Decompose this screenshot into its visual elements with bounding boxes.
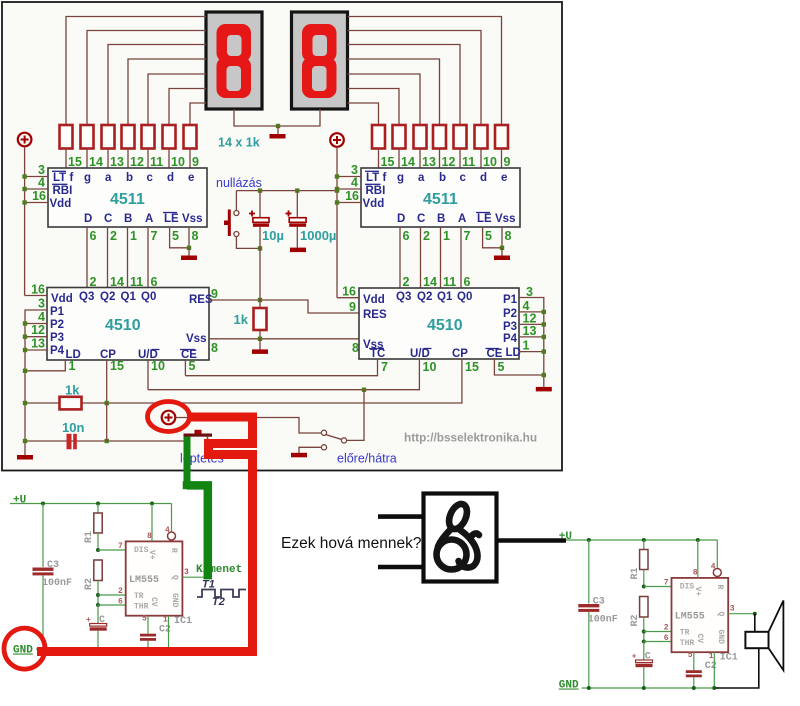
capacitor C IC1-left [97,605,99,624]
svg-text:a: a [105,172,112,184]
annotation red ring at GND [4,628,45,669]
svg-text:TR: TR [680,629,690,638]
wire U3 preset pin 12 [25,336,47,338]
wire U2 data pin 7 [460,227,462,288]
wire TR pin 2 IC1-left [98,594,126,596]
junction speaker node [753,612,757,616]
power terminal +V right [330,133,344,147]
svg-text:13: 13 [31,337,45,351]
svg-text:CV: CV [149,597,158,607]
svg-text:C: C [645,652,651,663]
wire resistor to 4511-1 pin 14 [86,149,88,169]
wire segment right display to resistor x439.5 [348,59,440,125]
svg-text:2: 2 [403,275,410,289]
svg-text:g: g [84,172,91,184]
wire switch common to U/D row [347,390,364,441]
wire U3 CP pin 15 [106,360,108,403]
junction U3 CP node [105,401,109,405]
svg-text:GND: GND [716,630,725,645]
annotation red ring at +V leptetes [148,402,190,432]
svg-text:10: 10 [151,359,165,373]
resistor R14 (1k) [372,125,385,149]
svg-text:6: 6 [464,275,471,289]
svg-text:8: 8 [352,341,359,355]
svg-text:R: R [715,585,724,590]
wire switch bottom contact to ground [299,447,321,453]
resistor R16 1k horizontal [60,397,82,410]
svg-text:LD: LD [506,347,521,359]
svg-text:CE: CE [487,348,503,360]
svg-text:9: 9 [504,155,511,169]
svg-text:6: 6 [664,634,669,643]
capacitor C3 IC1-right [588,540,590,604]
svg-text:Q3: Q3 [396,291,411,303]
wire resistor to 4511-1 pin 13 [107,149,109,169]
wire THR pin 6 IC1-left [98,604,126,606]
svg-text:3: 3 [38,297,45,311]
wire U4 TC pin 7 to U3 CE [185,359,377,376]
wire pin 4 R IC1-left [171,504,173,533]
wire U3 preset pin 13 [25,349,47,351]
wire TR pin 2 IC1-right [644,631,672,633]
svg-text:LT: LT [53,172,66,184]
IC U3 4510 counter box [47,288,209,361]
AND gate ampersand glyph [437,501,480,569]
svg-text:Q: Q [170,575,179,580]
svg-text:13: 13 [422,155,436,169]
ground switch [291,453,307,458]
junction U2 ground node [500,246,504,250]
svg-text:9: 9 [192,155,199,169]
svg-text:Q2: Q2 [417,291,432,303]
svg-text:10µ: 10µ [262,228,284,243]
svg-text:D: D [84,213,92,225]
svg-text:Ezek hová mennek?: Ezek hová mennek? [281,535,422,552]
svg-text:C2: C2 [705,661,717,672]
svg-text:1: 1 [69,359,76,373]
resistor R1 (1k) [60,125,73,149]
resistor R8 (1k) [495,125,508,149]
wire segment right display to resistor x460 [348,45,461,126]
svg-text:C3: C3 [47,560,59,571]
IC IC1-left LM555 box [126,541,183,615]
svg-text:R1: R1 [84,531,95,543]
svg-text:5: 5 [172,229,179,243]
svg-text:V+: V+ [693,587,702,597]
wire U1 pin 3 [25,176,48,178]
svg-text:T2: T2 [212,596,225,608]
resistor R6 (1k) [163,125,176,149]
svg-text:DIS: DIS [680,583,695,592]
svg-text:LM555: LM555 [129,575,159,586]
wire segment left display to resistor x128 [128,59,206,125]
ground right rail [536,387,552,392]
svg-text:c: c [147,172,154,184]
svg-text:C: C [99,615,105,626]
op-amp substitute: IC U2 4511 BCD decoder box [361,168,520,227]
resistor R5 (1k) [142,125,155,149]
capacitor C2 IC1-right [693,652,695,670]
wire resistor to 4511-2 pin 9 [501,149,503,170]
ground U2 [494,256,510,261]
svg-text:15: 15 [68,155,82,169]
svg-text:D: D [397,213,405,225]
wire U3 RES pin 9 to U4 RES pin 9 [209,300,359,313]
svg-text:TR: TR [134,592,144,601]
wire pushbutton bottom [236,237,260,249]
svg-text:g: g [397,172,404,184]
svg-text:15: 15 [110,359,124,373]
svg-text:6: 6 [90,229,97,243]
svg-text:THR: THR [680,639,695,648]
svg-text:U/D: U/D [410,348,430,360]
svg-text:C2: C2 [159,625,171,636]
svg-text:R: R [169,548,178,553]
wire U1 data pin 6 [86,227,88,288]
wire pin 4 R IC1-right [716,540,718,569]
wire U3 P1 pin 3 [25,310,47,455]
wire to ground [277,126,279,134]
junction display commons [276,124,280,128]
wire resistor to 4511-2 pin 12 [439,149,441,170]
digit 8 of DIS1 [217,24,252,62]
junction +V rail right [335,188,339,192]
svg-text:C: C [417,213,425,225]
svg-text:4: 4 [711,563,716,572]
wire to ground mid [259,339,261,350]
wire +V rail right [336,147,338,298]
wire DIS pin 7 IC1-left [98,549,126,551]
svg-text:5: 5 [688,651,693,660]
switch SW1 elore/hatra [321,430,326,435]
annotation red path [37,417,253,652]
svg-text:2: 2 [118,587,123,596]
wire resistor to 4511-1 pin 9 [189,149,191,169]
wire pin 3 output IC1-right [728,613,755,615]
resistor R7 (1k) [184,125,197,149]
wire U1 pin 16 [25,202,48,204]
svg-text:Vdd: Vdd [51,293,73,305]
7-segment display DIS2 [292,12,348,109]
wire U1 data pin 7 [147,227,149,288]
wire Vss row U3 pin 8 to U4 pin 8 [209,338,359,340]
wire speaker to ground [716,648,759,688]
wire U2 data pin 1 [440,227,442,288]
wire THR pin 6 IC1-right [644,641,672,643]
wire U1 Vss to ground [188,227,190,248]
svg-text:1: 1 [130,229,137,243]
wire U2 LE to ground [483,227,502,248]
wire segment right display to resistor x420 [348,74,421,125]
svg-text:P1: P1 [50,306,65,318]
wire CP node down to 10n row [106,403,108,441]
wire resistor to 4511-2 pin 14 [398,149,400,170]
svg-text:1: 1 [523,339,530,353]
svg-text:10: 10 [423,360,437,374]
svg-text:11: 11 [150,155,163,169]
svg-text:100nF: 100nF [588,615,618,626]
svg-text:IC1: IC1 [174,616,192,627]
wire AND gate input 2 [378,565,423,570]
svg-text:4: 4 [351,176,358,190]
wire U1 pin 4 [25,188,48,190]
svg-text:3: 3 [730,605,735,614]
wire U2 Vss to ground [501,227,503,248]
ground displays common [270,134,286,139]
svg-text:P3: P3 [50,332,64,344]
svg-text:+U: +U [13,495,26,507]
svg-text:A: A [458,213,466,225]
wire U3 Vdd pin 16 [25,295,47,297]
wire U2 pin 16 [337,202,361,204]
wire segment right display to resistor x399 [348,89,400,126]
svg-text:CV: CV [695,634,704,644]
wire pin 1 GND IC1-right [713,652,715,688]
svg-text:12: 12 [130,155,144,169]
wire segment left display to resistor x66 [66,17,206,126]
wire segment left display to resistor x169 [169,89,206,126]
svg-text:8: 8 [211,341,218,355]
wire segment left display to resistor x190 [190,103,206,125]
wire pin 3 output IC1-left [182,576,209,578]
wire pin 8 V+ IC1-left [151,504,153,542]
svg-text:7: 7 [464,229,471,243]
wire display1 common [234,109,278,126]
svg-text:f: f [70,172,74,184]
svg-text:C3: C3 [593,597,605,608]
pushbutton S1 nullazas [235,191,237,211]
capacitor C4 10n [25,440,187,442]
junction RES row / R15 top [258,298,262,302]
capacitor C3 IC1-left [42,504,44,568]
wire pin 1 GND IC1-left [168,616,170,649]
wire resistor to 4511-1 pin 11 [147,149,149,169]
resistor R3 (1k) [102,125,115,149]
svg-text:1000µ: 1000µ [300,228,336,243]
wire AND gate output to +U [497,538,566,543]
wire +U rail IC1-right [556,539,718,541]
svg-text:B: B [437,213,445,225]
svg-text:12: 12 [442,155,456,169]
svg-text:15: 15 [465,360,479,374]
svg-text:7: 7 [664,579,669,588]
resistor R9 (1k) [475,125,488,149]
svg-text:THR: THR [134,603,149,612]
svg-text:1k: 1k [65,383,80,398]
svg-text:8: 8 [505,229,512,243]
wire U4 right pin 1 [519,351,544,353]
wire resistor to 4511-2 pin 11 [459,149,461,170]
wire reset top row [236,190,337,192]
wire U3 U/D pin 10 [147,360,149,390]
wire resistor to 4511-1 pin 15 [65,149,67,169]
svg-text:LE: LE [164,213,179,225]
svg-text:GND: GND [170,593,179,608]
svg-text:10n: 10n [62,420,84,435]
svg-text:11: 11 [443,275,456,289]
svg-text:2: 2 [423,229,430,243]
wire U4 right pin 12 [519,323,544,325]
wire U1 data pin 1 [127,227,129,288]
wire AND gate input 1 [378,514,423,519]
svg-text:P2: P2 [50,319,64,331]
svg-text:16: 16 [342,285,356,299]
svg-text:Q0: Q0 [457,291,472,303]
resistor R13 (1k) [393,125,406,149]
7-segment display DIS1 [206,12,262,109]
speaker LS1 [754,614,756,632]
AND gate U5 box [424,494,497,582]
svg-text:IC1: IC1 [720,653,738,664]
wire resistor to 4511-2 pin 13 [419,149,421,170]
svg-text:P4: P4 [503,333,518,345]
wire GND rail IC1-right [582,687,719,689]
svg-text:A: A [145,213,153,225]
svg-text:Vss: Vss [186,333,206,345]
svg-text:V+: V+ [147,550,156,560]
svg-text:P4: P4 [50,345,65,357]
svg-text:Q1: Q1 [437,291,453,303]
ground U1 [181,256,197,261]
svg-text:d: d [167,172,174,184]
wire DIS pin 7 IC1-right [644,586,672,588]
wire segment right display to resistor x481 [348,31,482,126]
svg-text:9: 9 [211,287,218,301]
resistor R12 (1k) [414,125,427,149]
junction CE to right rail [542,373,546,377]
svg-text:15: 15 [381,155,395,169]
svg-text:RBI: RBI [53,185,73,197]
svg-text:12: 12 [31,323,45,337]
wire U1 LE to ground [170,227,189,248]
svg-text:+: + [86,616,91,625]
svg-text:1: 1 [709,652,714,661]
svg-text:9: 9 [349,300,356,314]
svg-text:5: 5 [498,360,505,374]
svg-text:nullázás: nullázás [216,176,262,190]
svg-text:13: 13 [523,324,537,338]
svg-text:b: b [439,172,446,184]
svg-text:Q: Q [716,612,725,617]
resistor R2 (1k) [81,125,94,149]
svg-text:f: f [383,172,387,184]
ground mid 1k [252,349,268,354]
wire U4 right pin 4 [519,311,544,313]
svg-text:2: 2 [664,624,669,633]
svg-text:14: 14 [401,155,415,169]
wire U3 preset pin 4 [25,323,47,325]
wire output to speaker node [754,613,756,615]
svg-text:RES: RES [363,309,387,321]
svg-text:16: 16 [345,189,359,203]
wire U2 pin 3 [337,176,361,178]
svg-text:5: 5 [142,615,147,624]
wire +V to switch [176,418,322,434]
wire green jumper leptetes to Kimenet [184,437,191,486]
svg-text:2: 2 [110,229,117,243]
svg-text:7: 7 [151,229,158,243]
power terminal +V left [18,133,32,147]
svg-text:7: 7 [118,542,123,551]
IC IC1-right LM555 box [672,578,729,652]
resistor R1 IC1-right [643,540,645,550]
wire U3 LD pin 1 [25,360,65,371]
wire U2 data pin 6 [399,227,401,288]
svg-text:+: + [632,653,637,662]
svg-text:10: 10 [171,155,185,169]
ground 1000u [290,248,306,253]
resistor R15 1k vertical [259,300,261,308]
svg-text:14: 14 [423,275,437,289]
wire GND rail IC1-left [36,648,173,650]
pushbutton S2 leptetes [184,434,213,437]
wire segment left display to resistor x87 [87,31,206,126]
wire U4 P1 pin 3 / right ground rail [519,298,544,387]
wire segment right display to resistor x501.5 [348,17,502,126]
svg-text:7: 7 [381,360,388,374]
svg-text:P3: P3 [503,321,517,333]
wire segment right display to resistor x378.5 [348,103,379,125]
svg-text:100nF: 100nF [42,578,72,589]
svg-text:P2: P2 [503,308,517,320]
resistor R2 IC1-right [640,597,648,618]
junction U/D row to switch [362,388,366,392]
svg-text:Vss: Vss [495,213,515,225]
wire U4 CP pin 15 long row to U3 CP [25,359,462,403]
wire resistor to 4511-2 pin 10 [480,149,482,170]
wire U1 data pin 2 [107,227,109,288]
svg-text:16: 16 [32,189,46,203]
wire U4 CE pin 5 [494,359,543,375]
wire +U rail IC1-left [10,503,172,505]
svg-text:Vdd: Vdd [363,294,385,306]
svg-text:Vdd: Vdd [50,198,72,210]
svg-text:előre/hátra: előre/hátra [337,452,397,466]
svg-text:b: b [126,172,133,184]
svg-text:R1: R1 [630,568,641,580]
resistor R10 (1k) [454,125,467,149]
capacitor C IC1-right [643,642,645,661]
svg-text:Q1: Q1 [121,291,137,303]
capacitor C2 IC1-left [147,616,149,634]
svg-text:P1: P1 [503,294,518,306]
op-amp substitute: IC U1 4511 BCD decoder box [48,168,207,227]
svg-text:6: 6 [118,598,123,607]
svg-text:3: 3 [184,568,189,577]
wire segment left display to resistor x108 [108,45,206,126]
svg-text:14 x 1k: 14 x 1k [218,136,260,150]
svg-text:a: a [418,172,425,184]
IC U4 4510 counter box [359,288,519,359]
svg-text:LT: LT [366,172,379,184]
resistor R1 IC1-left [97,504,99,514]
svg-text:RBI: RBI [366,185,386,197]
svg-text:Q0: Q0 [141,291,156,303]
wire reset node down to RES row [259,248,261,300]
resistor R2 IC1-left [94,560,102,581]
resistor R4 (1k) [122,125,135,149]
svg-text:Vdd: Vdd [363,198,385,210]
junction C1 bottom node [258,246,262,250]
svg-text:3: 3 [526,285,533,299]
wire U4 U/D pin 10 [148,359,419,390]
svg-text:e: e [188,172,194,184]
junction U1 ground node [187,246,191,250]
svg-text:GND: GND [13,645,33,657]
svg-text:1: 1 [443,229,450,243]
svg-text:4511: 4511 [423,191,458,208]
resistor R11 (1k) [433,125,446,149]
